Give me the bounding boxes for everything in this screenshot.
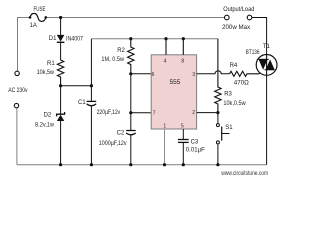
svg-text:1: 1 (163, 124, 166, 130)
wire lower-left AC lead (16, 108, 18, 165)
svg-text:C2: C2 (117, 130, 125, 136)
diode D1 (49, 18, 84, 61)
svg-text:S1: S1 (225, 125, 233, 131)
output terminal left (225, 15, 230, 20)
svg-text:1A: 1A (30, 23, 37, 29)
svg-text:D1: D1 (49, 36, 57, 42)
AC terminal upper (15, 71, 19, 75)
svg-text:C1: C1 (78, 100, 86, 106)
node: pin2/R3/S1 junction (216, 111, 219, 114)
svg-text:470Ω: 470Ω (234, 80, 250, 86)
svg-text:IN4007: IN4007 (66, 37, 84, 43)
node: bus junctions (59, 163, 219, 166)
svg-text:0.01µF: 0.01µF (186, 147, 205, 153)
resistor R1 (37, 60, 64, 86)
wire pin2 (197, 112, 218, 114)
svg-text:555: 555 (170, 79, 181, 86)
wire pin4 stub (164, 37, 167, 55)
resistor R3 (215, 39, 247, 113)
wire R2 column down to pin7 junction (130, 74, 132, 113)
resistor R4 (230, 63, 265, 86)
svg-text:6: 6 (152, 72, 155, 78)
capacitor C3 (178, 129, 205, 165)
zener diode D2 (35, 86, 65, 165)
svg-text:10k,0.5w: 10k,0.5w (223, 101, 246, 107)
capacitor C2 (electrolytic) (99, 113, 136, 165)
wire bottom bus (17, 164, 267, 166)
wire pin3 with hop over R3 column (197, 71, 230, 74)
svg-text:8: 8 (181, 58, 184, 64)
triac T1 (246, 44, 277, 76)
svg-text:2: 2 (192, 110, 195, 116)
wire top rail (18, 18, 225, 72)
wire pin1 to bus (164, 129, 166, 165)
svg-text:8.2v,1w: 8.2v,1w (35, 123, 55, 129)
node: C1 top junction (90, 84, 93, 87)
svg-text:BT136: BT136 (246, 50, 260, 56)
svg-text:www.circuitstune.com: www.circuitstune.com (221, 170, 269, 177)
svg-text:R3: R3 (224, 92, 232, 98)
svg-text:220µF,12v: 220µF,12v (97, 110, 121, 116)
svg-text:7: 7 (153, 111, 156, 117)
svg-text:Output/Load: Output/Load (223, 7, 254, 13)
node: R1 bottom junction (59, 84, 62, 87)
svg-text:1M, 0.5w: 1M, 0.5w (101, 57, 124, 63)
switch S1 (216, 113, 233, 165)
svg-text:R4: R4 (230, 63, 238, 69)
svg-text:4: 4 (164, 58, 167, 64)
wire triac to bus (266, 75, 268, 165)
svg-text:R2: R2 (117, 48, 125, 54)
wire R1 junction to C1 (61, 85, 92, 87)
svg-text:R1: R1 (47, 61, 55, 67)
wire VCC rail y39 (92, 38, 218, 40)
wire pin6 (131, 73, 151, 75)
svg-text:200w Max: 200w Max (222, 25, 250, 31)
svg-text:T1: T1 (263, 44, 271, 50)
node: D1 top junction (59, 16, 62, 19)
op: 555 timer U1 (151, 55, 196, 130)
wire right column to triac (252, 18, 267, 55)
capacitor C1 (electrolytic) (78, 39, 120, 165)
svg-text:1000µF,12v: 1000µF,12v (99, 141, 127, 147)
wire pin8 stub (182, 37, 185, 55)
svg-text:10k,5w: 10k,5w (37, 70, 55, 76)
svg-text:D2: D2 (44, 112, 52, 118)
AC terminal lower (14, 103, 18, 107)
node: pin6 junction (129, 72, 132, 75)
svg-text:C3: C3 (191, 139, 199, 145)
output terminal right (247, 15, 252, 20)
resistor R2 (101, 37, 134, 74)
svg-text:AC 230v: AC 230v (8, 88, 27, 94)
wire pin7 (131, 112, 151, 114)
svg-text:3: 3 (192, 72, 195, 78)
node: pin7 junction (129, 111, 132, 114)
svg-text:5: 5 (181, 124, 184, 130)
svg-text:FUSE: FUSE (34, 7, 46, 13)
fuse F1 (29, 7, 47, 29)
